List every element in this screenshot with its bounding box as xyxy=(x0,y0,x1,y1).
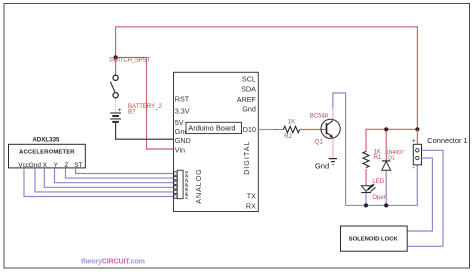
connector J1 Connector 1 xyxy=(412,138,422,172)
wire emitter stub xyxy=(332,138,334,158)
wire rail to connector plus xyxy=(416,129,418,144)
wire connector pin2 to solenoid xyxy=(407,158,432,231)
wire D10 to R2 xyxy=(274,129,283,131)
svg-text:LED: LED xyxy=(372,179,384,185)
wire D10 stub xyxy=(258,129,274,131)
battery B? xyxy=(110,107,122,122)
svg-text:Open: Open xyxy=(372,195,387,201)
LED D2 xyxy=(361,184,375,193)
svg-text:ADXL335: ADXL335 xyxy=(32,137,60,144)
wire battery minus to GND xyxy=(116,123,174,139)
svg-text:SDA: SDA xyxy=(241,85,256,94)
svg-text:Vin: Vin xyxy=(175,146,185,155)
wire junction to Vin xyxy=(116,57,174,149)
resistor R2 xyxy=(283,126,299,132)
node junction top xyxy=(114,55,118,59)
wire accel Z to A1 xyxy=(66,168,174,178)
svg-text:Arduino Board: Arduino Board xyxy=(188,124,235,133)
analog header pins A0-A5 xyxy=(174,170,189,199)
svg-text:DIGITAL: DIGITAL xyxy=(242,140,251,174)
svg-text:RST: RST xyxy=(175,95,190,104)
solenoid lock block xyxy=(341,226,408,251)
svg-text:theoryCIRCUIT.com: theoryCIRCUIT.com xyxy=(81,256,145,265)
node LED rail xyxy=(364,203,368,207)
node D1 rail xyxy=(384,203,388,207)
svg-text:SCL: SCL xyxy=(242,75,256,84)
svg-text:ANALOG: ANALOG xyxy=(194,168,203,203)
node connector rail xyxy=(415,127,419,131)
wire switch top stub xyxy=(115,57,117,75)
svg-text:SOLENOID LOCK: SOLENOID LOCK xyxy=(349,237,399,243)
svg-text:Gnd: Gnd xyxy=(315,161,329,170)
svg-text:Z: Z xyxy=(65,162,69,169)
wire top power rail xyxy=(116,27,418,130)
wire D1 cathode tap xyxy=(385,129,387,161)
wire R1 to LED xyxy=(365,169,367,186)
svg-text:D1: D1 xyxy=(388,156,395,162)
svg-text:D10: D10 xyxy=(243,125,256,134)
svg-text:X: X xyxy=(43,162,48,169)
wire accel Y to A2 xyxy=(55,168,174,182)
svg-text:ACCELEROMETER: ACCELEROMETER xyxy=(19,149,75,155)
wire accel Gnd to A4 xyxy=(35,168,174,192)
wire collector stub xyxy=(332,109,334,120)
svg-text:+: + xyxy=(118,107,122,114)
ground xyxy=(315,159,337,171)
wire bottom rail xyxy=(346,165,418,205)
svg-text:BC548: BC548 xyxy=(310,113,329,119)
svg-text:R1: R1 xyxy=(374,155,382,161)
svg-text:RX: RX xyxy=(246,202,256,211)
svg-text:TX: TX xyxy=(247,192,256,201)
svg-text:A5: A5 xyxy=(184,193,189,199)
svg-text:ST: ST xyxy=(74,162,82,169)
svg-text:5V: 5V xyxy=(175,118,184,127)
svg-text:+: + xyxy=(412,138,416,145)
wire switch to battery pin xyxy=(115,98,117,113)
wire accel Vcc to A5 xyxy=(24,168,174,196)
svg-text:1K: 1K xyxy=(288,119,295,125)
wire D1 anode to bottom rail xyxy=(385,171,387,206)
node D1 top rail xyxy=(384,127,388,131)
svg-text:Q1: Q1 xyxy=(315,139,324,145)
switch S1 SWITCH_SPST xyxy=(110,75,118,98)
wire rail to R1/D1 xyxy=(366,129,417,151)
wire R2 to base xyxy=(300,129,327,131)
op-amp U1 Arduino Board block xyxy=(174,72,259,211)
svg-text:Connector 1: Connector 1 xyxy=(427,136,467,145)
wire accel ST to A0 xyxy=(76,168,174,173)
svg-text:R2: R2 xyxy=(284,134,292,140)
wire connector pin1 to solenoid xyxy=(407,150,443,246)
svg-text:B?: B? xyxy=(128,110,136,116)
svg-text:SWITCH_SPST: SWITCH_SPST xyxy=(109,57,151,63)
svg-text:AREF: AREF xyxy=(237,95,257,104)
svg-text:GND: GND xyxy=(175,136,191,145)
svg-text:3.3V: 3.3V xyxy=(175,107,190,116)
resistor R1 xyxy=(363,151,369,167)
diode D1 1N4007 xyxy=(382,161,391,170)
wire accel X to A3 xyxy=(44,168,173,187)
wire LED to bottom rail xyxy=(365,193,367,205)
wire collector net xyxy=(333,93,346,205)
svg-text:Gnd: Gnd xyxy=(29,162,42,169)
svg-text:Y: Y xyxy=(54,162,59,169)
accelerometer ADXL335 block xyxy=(9,137,86,169)
transistor Q1 BC548 xyxy=(321,119,340,138)
svg-text:Gnd: Gnd xyxy=(242,105,256,114)
